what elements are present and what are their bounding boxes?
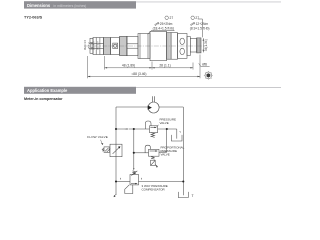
- svg-text:Ø25.4: Ø25.4: [89, 42, 91, 49]
- wire pilot branch x134: [133, 129, 135, 170]
- svg-text:(18.4+1.5 ft·lb): (18.4+1.5 ft·lb): [153, 26, 175, 30]
- knurled knob: [197, 38, 201, 53]
- wire rail2: [116, 128, 150, 130]
- svg-text:Ø19.8 f7: Ø19.8 f7: [94, 41, 96, 50]
- svg-text:VALVE: VALVE: [160, 121, 169, 125]
- label PRESSURE VALVE: [160, 118, 177, 126]
- section C: [127, 36, 138, 55]
- motor M1: [148, 96, 159, 113]
- body section D: [171, 33, 178, 60]
- svg-text:≈88 (3.46): ≈88 (3.46): [131, 72, 146, 76]
- tank 1: [171, 135, 182, 141]
- header bar: Dimensions: [24, 1, 136, 8]
- rotated small labels left: [83, 39, 100, 50]
- svg-text:Ø17.4 f7: Ø17.4 f7: [98, 41, 100, 50]
- dimension lines: [88, 55, 200, 79]
- hex nut: [138, 34, 150, 59]
- svg-text:T: T: [192, 194, 194, 198]
- big body cylinder: [150, 31, 167, 60]
- svg-text:Ø6: Ø6: [202, 63, 207, 67]
- proportional pressure valve: [145, 145, 159, 166]
- tank T: [178, 192, 188, 198]
- wrench icon 2: [190, 23, 195, 26]
- pressure valve: [145, 121, 157, 137]
- wire right vertical: [182, 107, 184, 195]
- svg-text:DR: DR: [124, 128, 128, 131]
- thread band 1: [104, 38, 110, 55]
- mid section with cross hole: [111, 38, 120, 55]
- wire top rail right: [159, 106, 183, 108]
- hex lock nut with flat arcs: [178, 34, 188, 59]
- vertical dim 34(1.34): [202, 38, 204, 52]
- annotation 2: hex 27, 12+2Nm: [191, 16, 203, 37]
- svg-text:Application Example: Application Example: [27, 88, 68, 93]
- 3 way pressure compensator: [121, 168, 142, 193]
- svg-text:34(1.34): 34(1.34): [204, 39, 208, 51]
- nose section with o-ring grooves: [93, 38, 104, 55]
- node junction dots: [115, 128, 184, 183]
- svg-text:48 (1.89): 48 (1.89): [122, 64, 135, 68]
- label 3 WAY PRESSURE COMPENSATOR: [142, 184, 168, 192]
- header bar: Application Example: [24, 87, 136, 94]
- svg-text:in millimeters (inches): in millimeters (inches): [54, 4, 87, 8]
- svg-text:TY2-063/S: TY2-063/S: [24, 15, 43, 19]
- svg-text:Dimensions: Dimensions: [27, 3, 51, 8]
- svg-text:27: 27: [195, 16, 199, 20]
- wrench icon 1: [155, 23, 160, 26]
- wire supply vertical: [115, 107, 117, 195]
- svg-text:12+2Nm: 12+2Nm: [196, 22, 209, 26]
- svg-text:28 (1.1): 28 (1.1): [159, 64, 170, 68]
- svg-text:(8.9+1.5 ft·lb): (8.9+1.5 ft·lb): [190, 26, 210, 30]
- end view of adjustment screw: [205, 72, 212, 79]
- svg-text:M22×1.5: M22×1.5: [83, 39, 87, 50]
- wire top rail left: [116, 106, 148, 108]
- svg-text:COMPENSATOR: COMPENSATOR: [142, 188, 166, 192]
- wire bottom rail: [116, 181, 130, 183]
- striped transition band: [167, 33, 169, 59]
- step: [187, 37, 190, 56]
- svg-text:Y: Y: [179, 130, 181, 134]
- svg-text:27: 27: [170, 16, 174, 20]
- annotation 1: hex 27, 25+2Nm: [148, 16, 175, 34]
- supply port arrow: [114, 194, 116, 196]
- svg-text:25+2Nm: 25+2Nm: [160, 22, 173, 26]
- small cylinder: [190, 39, 196, 53]
- svg-text:VALVE: VALVE: [161, 153, 170, 157]
- thread band 2: [120, 37, 126, 56]
- svg-text:Meter-in compensator: Meter-in compensator: [24, 97, 63, 101]
- label PROPORTIONAL PRESSURE VALVE: [161, 145, 185, 156]
- left nose stubs: [90, 38, 93, 42]
- centerline: [85, 45, 205, 47]
- wire prop valve drain: [159, 129, 167, 152]
- DR mark on rail: [124, 127, 129, 130]
- svg-text:FLOW VALVE: FLOW VALVE: [87, 135, 108, 139]
- flow valve: [102, 144, 122, 157]
